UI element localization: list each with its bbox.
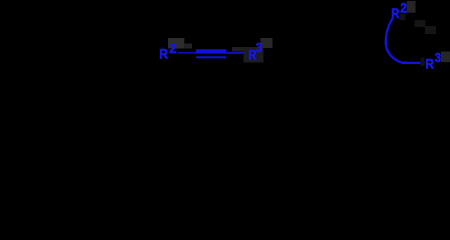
faint halo left of bottom R3 label (421, 58, 425, 67)
halo box right of superscript 3 (macrocycle bottom label) (441, 52, 450, 63)
halo box behind R3 label (alkyne) (244, 47, 264, 63)
svg-text:2: 2 (400, 0, 407, 16)
halo box above right of superscript 3 (alkyne) (261, 38, 273, 48)
alkyne main bond line C-C (left dim segment) (178, 52, 197, 54)
alkyne main bond line C-C (center segment) (196, 52, 226, 54)
gray band left of R3 label (alkyne) (232, 47, 244, 52)
svg-text:2: 2 (169, 41, 176, 56)
halo box right of superscript 2 (macrocycle top label) (407, 1, 416, 13)
halo band right of superscript 2 (alkyne) (184, 44, 192, 49)
svg-text:R: R (159, 45, 168, 61)
svg-text:R: R (425, 56, 434, 72)
alkyne triple bond upper parallel line (196, 49, 226, 52)
svg-text:3: 3 (435, 50, 441, 65)
faint halo under R2 label (399, 14, 405, 20)
svg-text:3: 3 (256, 40, 262, 55)
blue macrocycle arc from R2 down-left-bottom to R3 (386, 17, 425, 63)
alkyne main bond line C-C (right segment) (226, 52, 247, 54)
faint halo staircase of black ring double bond (415, 20, 426, 27)
halo box left of superscript 2 (alkyne) (168, 38, 184, 49)
alkyne triple bond lower parallel line (196, 56, 226, 58)
